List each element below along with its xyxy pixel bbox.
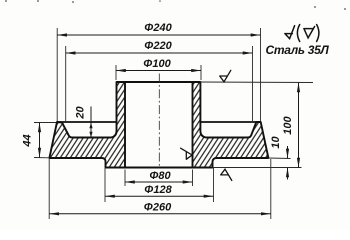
dimension 44 [38,123,41,158]
svg-text:20: 20 [75,106,87,120]
extension line phi128 right [213,168,215,202]
svg-text:Φ220: Φ220 [144,40,172,52]
extension line phi240 left [56,28,58,121]
surface finish mark on bore wall [181,148,193,159]
svg-text:44: 44 [22,134,34,147]
extension line phi220 left [65,46,67,121]
extension line 44 bottom [34,157,49,159]
svg-text:10: 10 [270,136,282,149]
dimension phi240 [57,33,260,36]
extension line phi260 left [48,159,50,219]
extension line 44 top [34,122,56,124]
extension line phi80 left [124,170,126,187]
extension line phi220 right [252,46,254,121]
extension line part bottom right (for 100/10) [213,167,302,169]
part outline right half [193,82,269,168]
extension line phi80 right [192,170,194,187]
dimension phi128 [105,195,214,198]
svg-text:100: 100 [282,115,294,134]
extension line phi128 left [104,168,106,202]
svg-text:Φ100: Φ100 [143,58,171,70]
extension line flange bottom right (for 10) [268,157,290,160]
extension line phi100 right [200,65,202,80]
svg-text:Φ260: Φ260 [144,201,172,213]
svg-text:Φ128: Φ128 [144,184,172,196]
flange top visible edge left (over pocket) [57,121,117,123]
flange top visible edge right (over pocket) [200,121,260,123]
surface finish mark on boss top [220,70,231,82]
hatching left half-section [49,82,125,168]
part outline left half [49,82,125,168]
boss top edge [117,81,201,83]
surface finish mark on bottom face [221,169,232,180]
extension line phi260 right [270,159,272,219]
dimension 20 (pocket depth) [89,107,92,138]
dimension 10 [286,146,289,180]
extension line boss top right (for 100) [200,81,313,84]
legend finish mark 2 [304,27,315,38]
svg-text:Φ80: Φ80 [149,170,171,182]
legend finish mark 1 [285,26,295,39]
legend close paren [317,25,319,42]
extension line phi240 right [260,28,262,121]
svg-text:Сталь 35Л: Сталь 35Л [266,43,330,57]
dimension phi220 [66,51,253,54]
legend open paren [297,25,299,42]
hatching right half-section [193,82,269,168]
extension line phi100 left [115,65,117,80]
part bottom edge across bore [106,167,213,169]
dimension phi80 [125,180,193,183]
dimension phi100 [116,69,201,72]
svg-text:Φ240: Φ240 [144,22,172,34]
centerline axis [158,74,160,169]
dimension phi260 [49,212,271,215]
scan specks top edge [5,0,346,10]
dimension 100 [297,83,300,168]
